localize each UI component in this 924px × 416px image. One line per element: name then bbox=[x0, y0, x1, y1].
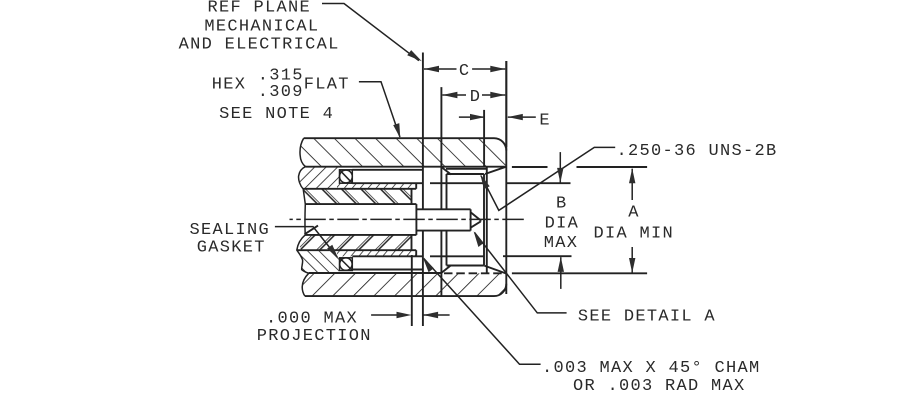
svg-text:DIA: DIA bbox=[545, 215, 580, 234]
svg-text:DIA MIN: DIA MIN bbox=[594, 225, 675, 244]
svg-text:AND ELECTRICAL: AND ELECTRICAL bbox=[179, 35, 340, 54]
svg-text:.003 MAX X 45° CHAM: .003 MAX X 45° CHAM bbox=[542, 359, 761, 378]
svg-text:GASKET: GASKET bbox=[197, 238, 266, 257]
svg-text:A: A bbox=[628, 204, 640, 223]
svg-text:MECHANICAL: MECHANICAL bbox=[204, 18, 319, 37]
svg-text:B: B bbox=[556, 194, 568, 213]
svg-text:PROJECTION: PROJECTION bbox=[257, 327, 372, 346]
svg-text:REF PLANE: REF PLANE bbox=[208, 0, 312, 18]
svg-text:SEE DETAIL A: SEE DETAIL A bbox=[578, 308, 716, 327]
svg-text:.000 MAX: .000 MAX bbox=[266, 309, 358, 328]
svg-text:SEALING: SEALING bbox=[190, 221, 271, 240]
svg-text:OR .003 RAD MAX: OR .003 RAD MAX bbox=[573, 377, 746, 396]
svg-text:MAX: MAX bbox=[544, 234, 579, 253]
svg-text:E: E bbox=[539, 111, 551, 130]
svg-text:.250-36 UNS-2B: .250-36 UNS-2B bbox=[617, 142, 778, 161]
svg-text:C: C bbox=[459, 62, 471, 81]
svg-text:SEE NOTE 4: SEE NOTE 4 bbox=[219, 105, 334, 124]
svg-text:.309: .309 bbox=[258, 83, 304, 102]
svg-text:HEX: HEX bbox=[212, 76, 247, 95]
svg-text:FLAT: FLAT bbox=[304, 76, 350, 95]
svg-text:D: D bbox=[470, 88, 482, 107]
